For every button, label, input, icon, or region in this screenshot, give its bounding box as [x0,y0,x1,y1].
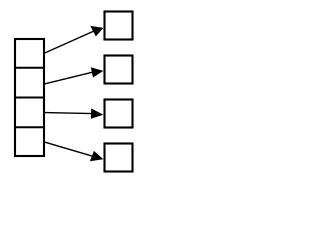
target box 3 [105,100,133,128]
array column (4 stacked cells) [15,39,44,156]
pointer arrow 4 (cell 4 to box 4) [45,142,103,161]
pointer arrow 3 (cell 3 to box 3) [45,108,103,118]
pointer arrow 2 (cell 2 to box 2) [45,67,103,84]
cell divider 1 [14,67,45,69]
target box 1 [105,12,133,40]
cell divider 2 [14,96,45,98]
pointer arrow 1 (cell 1 to box 1) [45,26,103,53]
target box 4 [105,144,133,172]
cell divider 3 [14,126,45,128]
target box 2 [105,56,133,84]
